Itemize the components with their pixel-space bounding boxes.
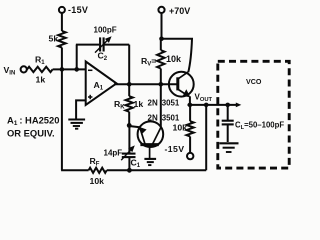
wire: C1 to bottom feedback rail [128, 157, 130, 170]
resistor 10k (emitter) [187, 121, 194, 136]
svg-text:C1: C1 [131, 158, 141, 170]
capacitor C2 variable arrow [95, 39, 109, 52]
wire: C2 loop left vertical [76, 45, 78, 70]
wire: CL to ground [227, 124, 229, 142]
op-amp A1 [86, 62, 117, 106]
wire: node down to C1 [128, 125, 130, 153]
wire: Q1 emitter down to VOUT line [189, 96, 191, 105]
svg-text:3501: 3501 [162, 114, 180, 123]
wire: C2 loop top left segment [76, 44, 99, 46]
wire: bottom rail right segment [107, 169, 207, 171]
wire: feedback right vertical up to VOUT line [205, 105, 207, 170]
wire: bottom rail left of RF [61, 169, 89, 171]
wire: VOUT line [188, 104, 238, 106]
node: RK / C1 / Q2 emitter junction [127, 123, 132, 128]
wire: C2 loop right vertical down to output node [128, 45, 130, 85]
resistor RK [126, 96, 133, 112]
wire: -15V rail down to 5k [61, 13, 63, 31]
svg-text:R1: R1 [35, 55, 45, 67]
node: C1 / bottom rail junction [127, 168, 132, 173]
capacitor C1 plates [122, 153, 136, 155]
transistor Q2 (2N3501) [138, 121, 164, 158]
node: feedback tap junction [74, 67, 79, 72]
svg-text:A1 : HA2520: A1 : HA2520 [7, 115, 59, 128]
wire: +70V rail down [161, 13, 163, 39]
wire: RV node down to Q2 collector [160, 84, 162, 127]
node: RV / Q2 collector junction [159, 82, 164, 87]
terminal V_IN [21, 66, 27, 72]
resistor RV [157, 50, 164, 68]
wire: 10k to -15V terminal [189, 136, 191, 152]
wire: 5k to input node [61, 48, 63, 70]
svg-text:10k: 10k [166, 54, 182, 64]
node: emitter/10k junction [188, 103, 193, 108]
capacitor C1 variable arrow [121, 149, 132, 160]
wire: CL tap down [227, 105, 229, 121]
svg-text:14pF: 14pF [104, 148, 123, 157]
node: CL tap junction [225, 103, 230, 108]
svg-text:RK: RK [114, 99, 125, 111]
svg-text:CL=50–100pF: CL=50–100pF [235, 121, 284, 131]
svg-text:10k: 10k [173, 122, 188, 132]
svg-text:-15V: -15V [68, 5, 88, 15]
resistor RF [89, 168, 107, 173]
svg-text:1k: 1k [36, 75, 46, 85]
wire: R1 to op-amp inverting input [53, 68, 86, 70]
wire: branch to Q1 collector [162, 39, 193, 72]
svg-text:-15V: -15V [165, 144, 185, 154]
svg-text:VIN: VIN [4, 65, 16, 77]
svg-text:2N: 2N [148, 99, 158, 108]
wire: RV top lead [160, 39, 162, 51]
svg-text:RV=: RV= [141, 56, 156, 68]
wire: C2 loop top right segment [105, 44, 130, 46]
VCO dashed box [218, 61, 289, 168]
node: +70V branch junction [159, 36, 164, 41]
svg-text:VCO: VCO [246, 78, 262, 86]
node: output / C2 / RK junction [127, 82, 132, 87]
svg-text:OR EQUIV.: OR EQUIV. [7, 127, 55, 138]
wire: left feedback vertical (input node to bottom rail) [61, 69, 63, 170]
svg-text:5k: 5k [49, 34, 59, 44]
node: feedback junction on VOUT line [204, 103, 209, 108]
ground (Q2 base) [144, 159, 156, 165]
ground (op-amp + input) [68, 120, 85, 129]
svg-text:RF: RF [90, 156, 100, 168]
svg-text:100pF: 100pF [94, 25, 117, 34]
wire: node to Q2 emitter [129, 126, 140, 127]
ground (CL) [219, 143, 238, 152]
wire: RK to C1/base node [128, 112, 130, 126]
wire: non-inverting input to ground [76, 100, 86, 118]
terminal +70V [158, 7, 164, 13]
svg-text:VOUT: VOUT [195, 93, 213, 104]
wire: 10k emitter resistor top lead [189, 105, 191, 121]
resistor RK leads [128, 84, 130, 96]
node: input/5k junction [60, 67, 65, 72]
svg-text:A1: A1 [94, 80, 104, 92]
resistor 5k [58, 31, 66, 48]
terminal -15V [59, 7, 65, 13]
svg-text:C2: C2 [98, 51, 108, 63]
svg-text:10k: 10k [90, 176, 105, 186]
svg-text:3051: 3051 [162, 99, 180, 108]
resistor R1 [27, 67, 53, 72]
wire: op-amp output line to Q1 base [114, 83, 178, 85]
svg-text:1k: 1k [134, 99, 144, 109]
terminal -15V (bottom) [187, 153, 193, 159]
svg-text:+70V: +70V [169, 6, 190, 16]
wire: RV bottom lead to output line [160, 69, 162, 85]
transistor Q1 (2N3051) [169, 72, 194, 97]
capacitor CL plates [222, 120, 234, 122]
capacitor C2 plates [99, 37, 101, 51]
